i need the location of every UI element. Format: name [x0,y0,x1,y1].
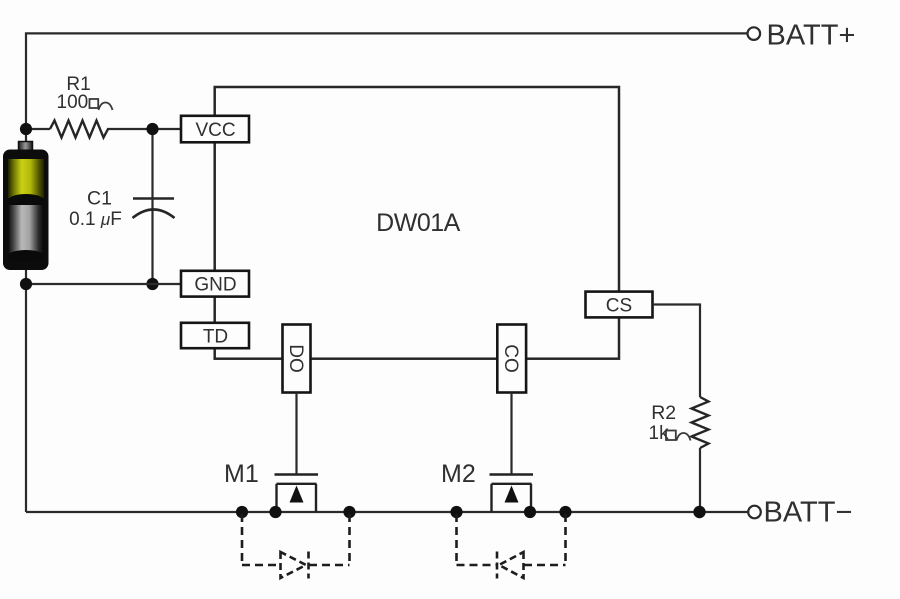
wire: left rail battery negative down to bottom rail [25,284,27,512]
svg-text:0.1 μF: 0.1 μF [69,209,122,230]
svg-text:M2: M2 [441,460,476,488]
terminal BATT- [748,506,761,519]
IC U1 DW01A outline [215,87,619,359]
node: dashed box left junction (M2) [450,506,462,518]
node A: R1 / battery+ junction [20,123,32,135]
wire: OD pin to M1 gate [295,393,297,475]
svg-text:DW01A: DW01A [376,209,460,237]
node: R2 / BATT- junction [693,506,705,518]
capacitor C1 [133,199,175,219]
node: R1/C1/VCC junction [146,123,158,135]
pin OC (vertical) [497,325,526,393]
node: M2 source junction [524,506,536,518]
svg-text:TD: TD [203,326,228,347]
node: M1 source junction [269,506,281,518]
body diode of M1 (dashed) [242,514,350,579]
wire: top rail BATT+ [26,33,747,284]
node: dashed box left junction (M1) [236,506,248,518]
body diode of M2 (dashed, pointing left) [457,514,566,579]
svg-text:DO: DO [285,344,306,373]
node: dashed box right junction (M2) [559,506,571,518]
node: C1 bottom / GND junction [146,278,158,290]
svg-text:BATT−: BATT− [764,496,853,528]
pin OD (vertical) [283,325,311,393]
resistor R1 [50,121,108,138]
battery B1 [3,142,49,271]
svg-text:GND: GND [194,275,236,296]
svg-text:M1: M1 [224,460,259,488]
svg-text:R2: R2 [651,402,676,424]
transistor M2 [490,475,534,513]
svg-text:BATT+: BATT+ [767,19,856,51]
svg-text:100: 100 [57,92,89,113]
wire: battery negative to GND pin [26,283,182,285]
pin GND [181,271,249,297]
svg-text:CO: CO [500,344,521,373]
value 100Ω (rendered as box + arc glyph) [57,92,113,113]
svg-text:C1: C1 [87,187,112,209]
node: battery negative junction [20,278,32,290]
svg-text:CS: CS [606,295,632,316]
node: dashed box right junction (M1) [343,506,355,518]
pin CS [586,292,653,318]
value 1kΩ (rendered as box + arc glyph) [649,423,691,444]
wire: R2 to bottom rail [699,448,701,512]
wire: OC pin to M2 gate [510,393,512,475]
resistor R2 [692,397,709,448]
wire: R1 lead and to VCC pin [26,128,50,130]
svg-text:VCC: VCC [195,120,235,141]
terminal BATT+ [748,27,761,40]
pin VCC [181,116,249,143]
wire: bottom rail to BATT- [26,511,748,513]
wire: C1 vertical branch [151,129,153,284]
transistor M1 [275,475,319,513]
wire: CS pin to R2 [653,305,701,398]
pin TD [181,323,249,348]
